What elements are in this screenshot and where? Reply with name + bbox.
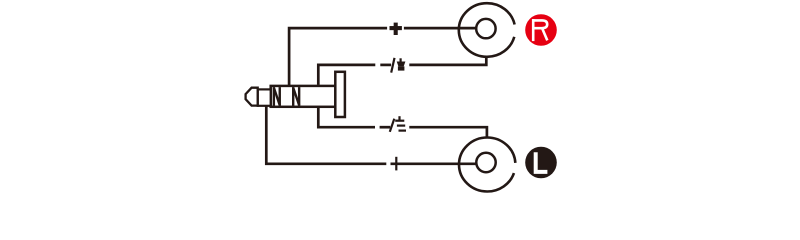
polarity symbol plus (R hot) (390, 23, 402, 35)
plug flange washer (335, 72, 345, 117)
wire dash (L shield) (380, 126, 391, 129)
jack body bracket top + shield wire toward R (318, 65, 375, 85)
wire from ground symbol to L shell (409, 127, 487, 138)
wire from shield symbol to R shell (409, 57, 486, 65)
wire ring-lead: vertical from barrel up, then right to plus symbol (289, 28, 387, 86)
RCA R center pin (476, 19, 495, 38)
shield break slash (L) (390, 119, 395, 132)
wire to L center pin (391, 162, 478, 165)
insulator band 1 (274, 87, 280, 106)
shield break slash (R) (391, 58, 394, 73)
jack body bracket bottom + shield wire toward L (318, 108, 375, 127)
badge R (red) (525, 14, 557, 46)
RCA L outer shell (459, 138, 515, 192)
plug tip (246, 88, 258, 106)
polarity symbol plus (L hot) (395, 157, 397, 171)
wire to R center pin (404, 27, 477, 30)
RCA L center pin (476, 153, 495, 172)
plug neck (258, 89, 271, 105)
wire tip-lead: vertical down from neck, then right along bottom (266, 104, 386, 164)
ground bars symbol (395, 116, 406, 130)
insulator band 2 (293, 87, 299, 106)
shield arrow symbol (397, 58, 406, 70)
wire dash (R shield) (380, 64, 391, 67)
badge L (black) (525, 147, 557, 179)
plug barrel (sleeve) (271, 86, 336, 107)
RCA R outer shell (459, 3, 515, 57)
